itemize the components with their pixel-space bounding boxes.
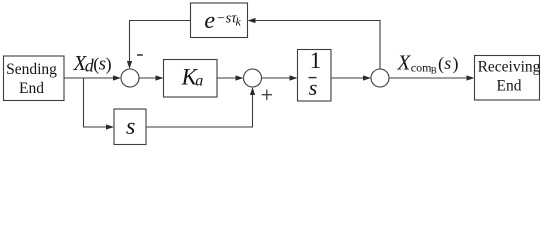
svg-text:Xd(s): Xd(s) (73, 51, 112, 76)
svg-text:Receiving: Receiving (478, 59, 541, 76)
svg-text:s: s (309, 75, 318, 100)
svg-text:End: End (497, 78, 522, 95)
svg-text:1: 1 (310, 48, 322, 73)
svg-text:Sending: Sending (6, 61, 57, 78)
svg-text:End: End (19, 80, 44, 97)
svg-text:s: s (126, 114, 135, 140)
